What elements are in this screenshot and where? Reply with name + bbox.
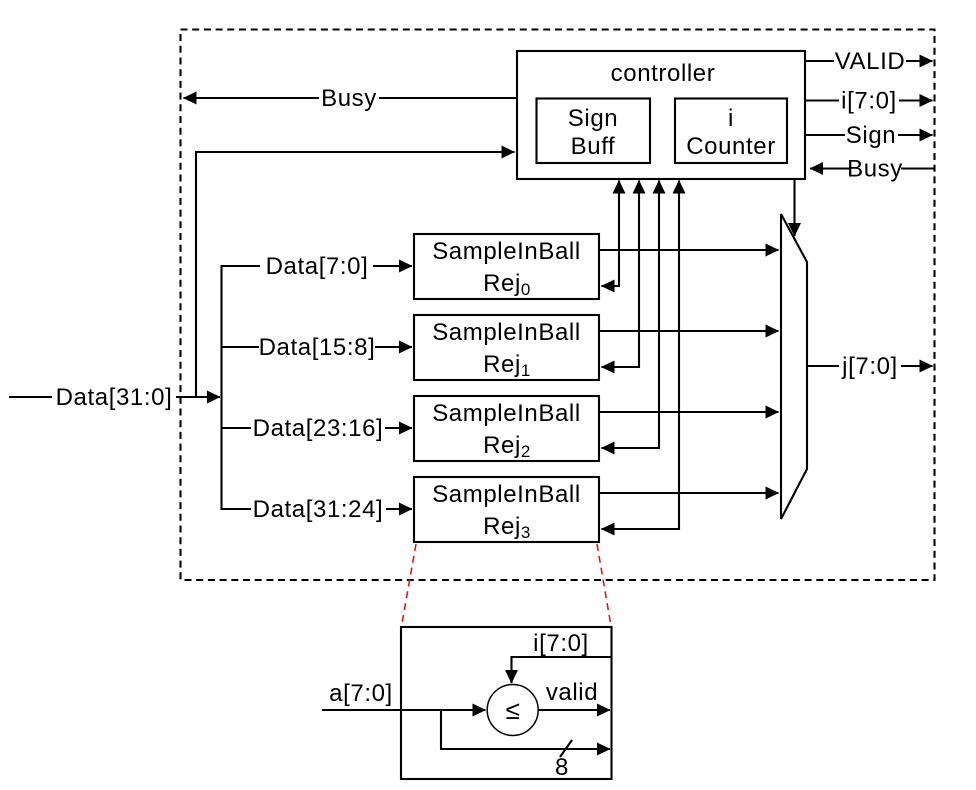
svg-text:SampleInBall: SampleInBall xyxy=(432,400,581,427)
svg-text:SampleInBall: SampleInBall xyxy=(432,319,581,346)
svg-text:SampleInBall: SampleInBall xyxy=(432,481,581,508)
svg-text:Sign: Sign xyxy=(846,122,896,149)
svg-text:valid: valid xyxy=(546,679,598,706)
svg-text:Busy: Busy xyxy=(321,85,377,112)
svg-text:j[7:0]: j[7:0] xyxy=(841,353,898,380)
svg-text:Buff: Buff xyxy=(571,133,616,160)
svg-text:Data[31:0]: Data[31:0] xyxy=(56,384,173,411)
svg-text:≤: ≤ xyxy=(506,695,521,725)
svg-text:a[7:0]: a[7:0] xyxy=(329,680,393,707)
svg-text:Data[7:0]: Data[7:0] xyxy=(266,253,369,280)
svg-text:SampleInBall: SampleInBall xyxy=(432,238,581,265)
svg-text:i: i xyxy=(728,105,734,132)
svg-text:Sign: Sign xyxy=(568,105,618,132)
svg-text:controller: controller xyxy=(611,60,716,87)
svg-text:i[7:0]: i[7:0] xyxy=(841,88,897,115)
svg-text:VALID: VALID xyxy=(835,48,906,75)
svg-text:8: 8 xyxy=(555,754,569,781)
svg-text:Data[31:24]: Data[31:24] xyxy=(253,496,384,523)
svg-text:Counter: Counter xyxy=(686,133,776,160)
svg-text:Data[15:8]: Data[15:8] xyxy=(259,334,376,361)
svg-text:i[7:0]: i[7:0] xyxy=(533,630,589,657)
svg-text:Data[23:16]: Data[23:16] xyxy=(253,415,384,442)
svg-text:Busy: Busy xyxy=(847,156,903,183)
